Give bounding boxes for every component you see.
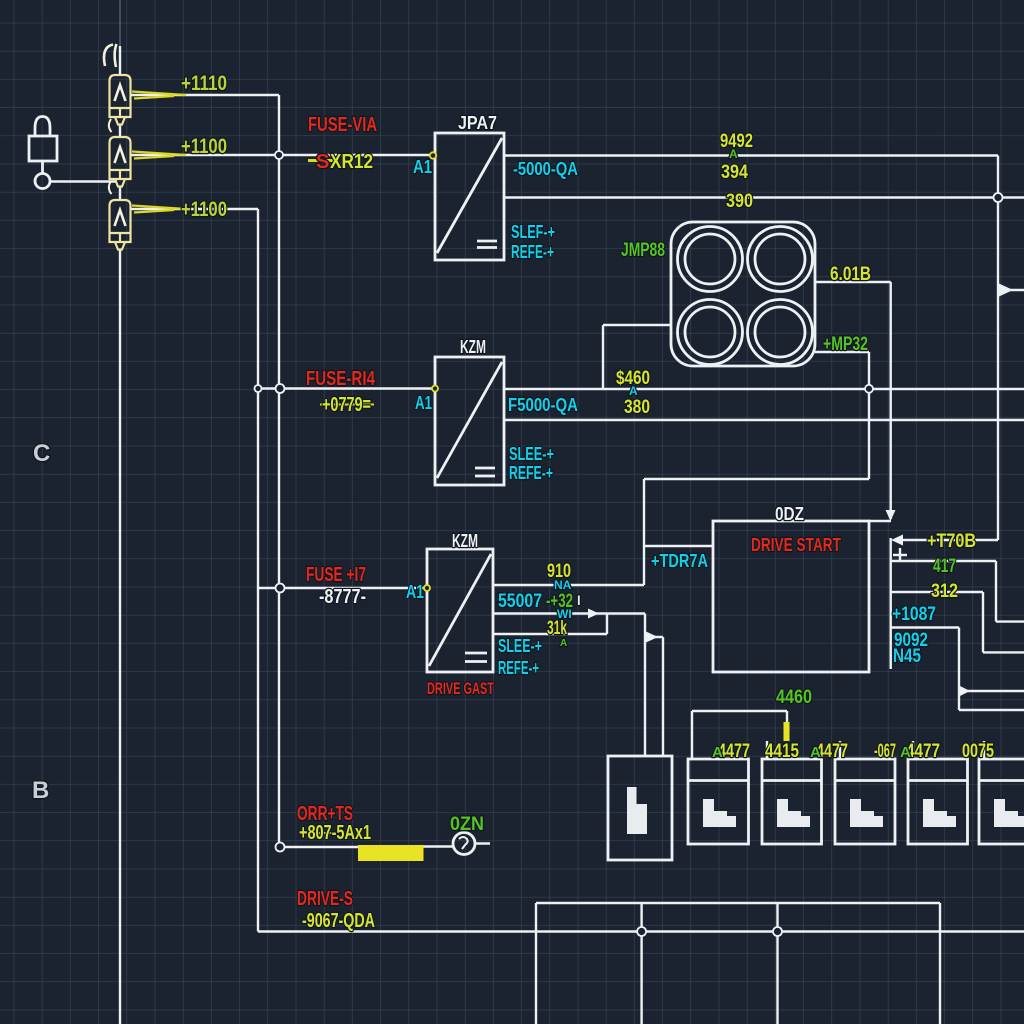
svg-text:417: 417 [933, 556, 956, 577]
svg-text:+1110: +1110 [181, 72, 227, 95]
svg-text:FUSE-RI4: FUSE-RI4 [306, 368, 376, 390]
svg-text:JMP88: JMP88 [621, 240, 665, 261]
svg-text:+MP32: +MP32 [823, 334, 868, 355]
svg-text:SLEF-+: SLEF-+ [511, 222, 555, 242]
svg-text:DRIVE-S: DRIVE-S [297, 888, 353, 910]
svg-text:l: l [577, 593, 581, 608]
svg-text:A1: A1 [415, 393, 432, 413]
svg-text:31k: 31k [547, 618, 567, 639]
svg-text:-8777-: -8777- [319, 586, 366, 608]
svg-text:A: A [900, 744, 911, 761]
svg-text:+1100: +1100 [181, 135, 227, 158]
svg-text:A1: A1 [413, 157, 432, 177]
svg-text:4460: 4460 [776, 687, 812, 708]
svg-text:A: A [712, 744, 723, 761]
svg-text:SLEE-+: SLEE-+ [498, 636, 542, 656]
svg-text:+1087: +1087 [892, 604, 936, 625]
svg-text:-5000-QA: -5000-QA [513, 159, 578, 179]
svg-text:A: A [729, 147, 738, 161]
svg-text:+TDR7A: +TDR7A [651, 551, 708, 571]
svg-text:+0779=: +0779= [322, 394, 371, 416]
svg-text:F5000-QA: F5000-QA [508, 395, 578, 415]
svg-text:KZM: KZM [460, 337, 486, 357]
svg-text:KZM: KZM [452, 531, 478, 551]
svg-text:312: 312 [931, 581, 958, 602]
svg-text:-067: -067 [874, 741, 896, 762]
svg-text:A: A [560, 638, 567, 649]
svg-text:394: 394 [721, 162, 748, 183]
svg-text:DRIVE START: DRIVE START [751, 535, 841, 555]
svg-text:390: 390 [726, 191, 753, 212]
svg-text:0075: 0075 [962, 741, 994, 762]
svg-text:-9067-QDA: -9067-QDA [302, 910, 375, 932]
svg-text:C: C [33, 440, 50, 467]
svg-text:55007: 55007 [498, 591, 542, 612]
svg-text:A: A [629, 384, 638, 398]
svg-text:SLEE-+: SLEE-+ [509, 444, 554, 464]
svg-text:6.01B: 6.01B [830, 264, 871, 285]
svg-text:B: B [32, 777, 49, 804]
svg-text:XR12: XR12 [330, 151, 373, 173]
svg-text:0DZ: 0DZ [775, 504, 804, 524]
svg-text:REFE-+: REFE-+ [511, 242, 554, 262]
svg-text:NA: NA [554, 578, 572, 592]
svg-text:0ZN: 0ZN [450, 814, 484, 835]
svg-text:S: S [316, 151, 329, 173]
svg-text:380: 380 [624, 397, 650, 418]
svg-text:JPA7: JPA7 [458, 113, 497, 133]
svg-text:+1100: +1100 [181, 198, 227, 221]
svg-text:A1: A1 [406, 582, 424, 602]
svg-text:FUSE +I7: FUSE +I7 [306, 564, 366, 586]
svg-text:+T70B: +T70B [927, 531, 976, 552]
svg-text:FUSE-VIA: FUSE-VIA [308, 114, 377, 136]
svg-text:4415: 4415 [765, 741, 799, 762]
svg-text:REFE-+: REFE-+ [498, 658, 539, 678]
svg-text:DRIVE GAST: DRIVE GAST [427, 679, 494, 698]
svg-text:4477: 4477 [906, 741, 940, 762]
svg-text:A: A [810, 744, 821, 761]
svg-text:N45: N45 [893, 646, 921, 667]
svg-text:REFE-+: REFE-+ [509, 463, 553, 483]
svg-text:+807-5Ax1: +807-5Ax1 [299, 822, 371, 844]
